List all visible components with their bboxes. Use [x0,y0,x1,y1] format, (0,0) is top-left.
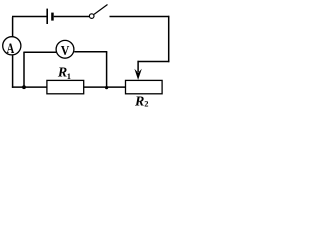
wire left vertical (top corner down to ammeter) [12,17,14,36]
wire right vertical (top corner down) [168,16,170,62]
wire switch to top-right corner [110,16,170,18]
svg-text:R: R [57,66,67,81]
node junction dot right [105,86,108,89]
battery cell short thick plate (-) [51,13,54,21]
wire top-left horizontal (battery left lead) [12,16,47,18]
switch lever (open) [94,5,108,15]
battery cell long plate (+) [46,9,48,24]
wire voltmeter branch left vertical [23,52,25,87]
wire bottom branch left segment [12,86,48,88]
rheostat slider arrow stem [137,61,139,72]
wire voltmeter branch right horizontal [74,51,107,53]
wire voltmeter branch left horizontal [23,51,56,53]
voltmeter V [56,40,74,58]
svg-text:V: V [61,42,70,58]
ammeter A [3,37,21,55]
wire jog horizontal to slider [138,61,170,63]
svg-text:1: 1 [67,71,71,81]
svg-text:A: A [7,39,15,56]
switch S pivot [89,14,94,19]
svg-text:R: R [134,94,144,109]
wire battery to switch [54,16,89,18]
svg-text:2: 2 [144,99,148,109]
resistor R1 box [47,80,84,93]
rheostat slider arrowhead [134,69,141,80]
wire ammeter down to bottom branch [12,55,14,88]
wire voltmeter branch right vertical [106,52,108,88]
wire bottom branch right segment (R1 to R2) [84,86,127,88]
node junction dot left (voltmeter tap) [22,85,26,89]
rheostat R2 box [126,80,163,93]
